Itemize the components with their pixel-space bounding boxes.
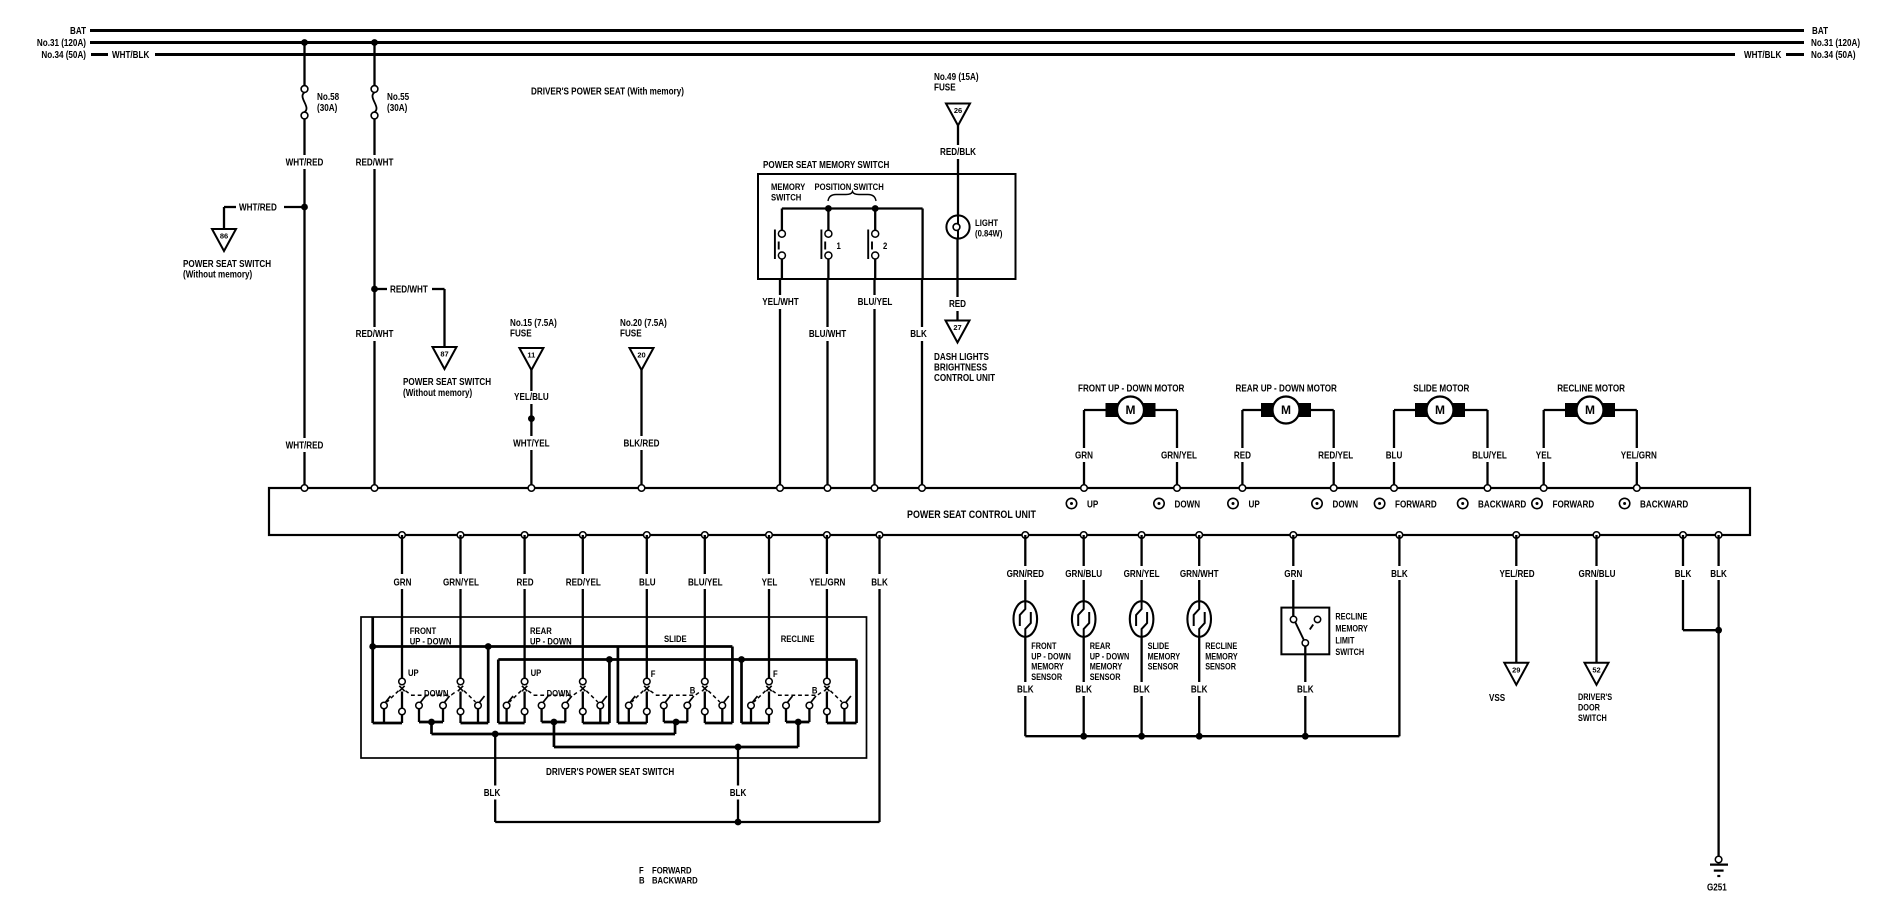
terminal (top edge) — [824, 485, 831, 492]
throw contact — [597, 702, 604, 709]
svg-text:RECLINE MOTOR: RECLINE MOTOR — [1557, 384, 1625, 395]
terminal (top edge) — [777, 485, 784, 492]
terminal (bottom edge) — [1022, 532, 1029, 539]
wire YEL (left motor lead) — [1544, 409, 1565, 411]
wire RED/YEL to seat switch — [582, 535, 584, 574]
terminal (top edge) — [1634, 485, 1641, 492]
wire BLK from limit switch — [1304, 646, 1306, 682]
terminal (bottom edge) — [1138, 532, 1145, 539]
junction to second power seat switch branch — [371, 286, 378, 293]
connector 27 dash lights — [946, 321, 970, 343]
svg-text:UP: UP — [531, 668, 542, 679]
wire BLK from sensor — [1083, 637, 1085, 682]
svg-text:POWER SEAT MEMORY SWITCH: POWER SEAT MEMORY SWITCH — [763, 160, 889, 171]
throw contact — [538, 702, 545, 709]
wire BLU/YEL to seat switch — [704, 535, 706, 574]
throw contact — [841, 702, 848, 709]
svg-text:DRIVER'S POWER SEAT SWITCH: DRIVER'S POWER SEAT SWITCH — [546, 767, 674, 778]
svg-text:YEL/WHT: YEL/WHT — [762, 297, 799, 308]
svg-text:BLU/YEL: BLU/YEL — [858, 297, 893, 308]
svg-text:87: 87 — [440, 350, 448, 359]
terminal (bottom edge) — [1593, 532, 1600, 539]
svg-text:BLK: BLK — [1297, 685, 1314, 696]
terminal (top edge) — [301, 485, 308, 492]
svg-text:BLK: BLK — [1675, 569, 1692, 580]
svg-text:VSS: VSS — [1489, 693, 1505, 704]
svg-text:YEL/GRN: YEL/GRN — [809, 578, 845, 589]
svg-text:29: 29 — [1512, 665, 1520, 674]
svg-text:11: 11 — [527, 351, 535, 360]
svg-text:DOWN: DOWN — [547, 689, 572, 700]
wire link FRONT to SLIDE common — [430, 722, 433, 734]
svg-text:UP - DOWN: UP - DOWN — [530, 637, 572, 648]
wire RED/WHT below fuse 55 — [373, 119, 375, 155]
switch: recline memory limit switch — [1290, 616, 1296, 622]
svg-text:YEL/BLU: YEL/BLU — [514, 392, 549, 403]
throw contact — [503, 702, 510, 709]
wire from rail to fuse No.55 — [373, 43, 375, 86]
svg-text:BAT: BAT — [1812, 26, 1828, 37]
wire left wall FRONT UP-DOWN — [371, 617, 374, 723]
svg-text:M: M — [1585, 403, 1595, 417]
svg-text:DOOR: DOOR — [1578, 703, 1600, 713]
terminal (top edge) — [638, 485, 645, 492]
svg-text:REAR: REAR — [530, 626, 552, 637]
terminal (bottom edge) — [766, 532, 773, 539]
svg-text:FORWARD: FORWARD — [1395, 500, 1437, 511]
svg-text:GRN/RED: GRN/RED — [1007, 569, 1044, 580]
switch contact column x=524.6 — [521, 678, 528, 685]
terminal (top edge) — [871, 485, 878, 492]
switch contact column x=402 — [399, 678, 406, 685]
svg-text:BLK: BLK — [1191, 685, 1208, 696]
svg-text:BACKWARD: BACKWARD — [652, 876, 698, 887]
wire RED/BLK to memory switch light — [957, 126, 959, 146]
terminal (top edge) — [528, 485, 535, 492]
svg-text:SLIDE: SLIDE — [1148, 641, 1170, 651]
switch contact column x=646.8 — [644, 678, 651, 685]
svg-text:WHT/RED: WHT/RED — [286, 158, 324, 169]
terminal (top edge) — [1081, 485, 1088, 492]
switch contact column x=460.5 — [457, 678, 464, 685]
svg-text:UP: UP — [1249, 500, 1261, 511]
terminal (top edge) — [1540, 485, 1547, 492]
wire GRN/YEL to sensor — [1140, 535, 1142, 566]
wire YEL/RED to VSS — [1515, 535, 1517, 566]
wire sensor ground bus — [1025, 735, 1399, 737]
connector 26 fuse No.49 triangle — [946, 104, 970, 126]
svg-text:WHT/RED: WHT/RED — [286, 441, 324, 452]
wire BLK sensor ground — [1398, 535, 1400, 566]
terminal symbol DOWN — [1154, 498, 1164, 508]
terminal (bottom edge) — [580, 532, 587, 539]
svg-text:86: 86 — [220, 232, 228, 241]
wire right wall SLIDE — [731, 647, 734, 724]
wire GRN/BLU to sensor — [1083, 535, 1085, 566]
throw contact — [783, 702, 790, 709]
svg-text:No.31 (120A): No.31 (120A) — [37, 38, 86, 49]
svg-text:27: 27 — [953, 323, 961, 332]
svg-text:MEMORY: MEMORY — [1090, 662, 1123, 672]
wire right wall RECLINE — [855, 660, 858, 724]
svg-text:UP - DOWN: UP - DOWN — [1090, 651, 1130, 661]
svg-text:DRIVER'S: DRIVER'S — [1578, 692, 1612, 702]
svg-text:BACKWARD: BACKWARD — [1640, 500, 1688, 511]
svg-text:RED/YEL: RED/YEL — [1318, 451, 1353, 462]
switch: memory switch — [781, 209, 783, 231]
wire bus 1 (front/slide feed) — [373, 645, 733, 648]
wire: No.31 (120A) rail — [90, 41, 1804, 44]
svg-text:B: B — [690, 686, 696, 697]
sensor: SLIDE MEMORY SENSOR — [1130, 601, 1154, 637]
junction BLK merge — [1715, 627, 1722, 634]
svg-text:GRN/WHT: GRN/WHT — [1180, 569, 1219, 580]
svg-text:GRN/YEL: GRN/YEL — [1161, 451, 1197, 462]
wire left wall RECLINE — [740, 660, 743, 724]
terminal (bottom edge) — [1290, 532, 1297, 539]
terminal (bottom edge) — [1513, 532, 1520, 539]
wire middle throw tie — [664, 721, 688, 724]
junction BLK2 on return bus — [735, 819, 742, 826]
wire GRN to limit switch — [1292, 535, 1294, 566]
svg-text:BLK: BLK — [871, 578, 888, 589]
svg-text:FRONT: FRONT — [410, 626, 437, 637]
wire BLU/WHT — [826, 279, 828, 327]
wire bus 2 (rear/recline feed) — [498, 658, 856, 661]
wire WHT/RED below fuse 58 — [303, 119, 305, 155]
svg-text:GRN: GRN — [394, 578, 412, 589]
svg-text:POWER SEAT CONTROL UNIT: POWER SEAT CONTROL UNIT — [907, 509, 1036, 521]
terminal symbol UP — [1066, 498, 1076, 508]
throw contact — [562, 702, 569, 709]
svg-text:FORWARD: FORWARD — [1553, 500, 1595, 511]
svg-text:No.20 (7.5A): No.20 (7.5A) — [620, 318, 667, 329]
svg-text:YEL/GRN: YEL/GRN — [1621, 451, 1657, 462]
svg-text:(Without memory): (Without memory) — [403, 388, 472, 399]
svg-text:MEMORY: MEMORY — [1031, 662, 1064, 672]
svg-text:RECLINE: RECLINE — [1205, 641, 1237, 651]
svg-text:RECLINE: RECLINE — [781, 634, 815, 645]
svg-text:MEMORY: MEMORY — [1148, 651, 1181, 661]
box: recline memory limit switch — [1281, 608, 1329, 655]
throw contact — [626, 702, 633, 709]
svg-text:MEMORY: MEMORY — [1205, 651, 1238, 661]
svg-text:RED/WHT: RED/WHT — [390, 285, 428, 296]
svg-text:(30A): (30A) — [387, 103, 407, 114]
svg-text:BLU: BLU — [1386, 451, 1403, 462]
svg-text:No.31 (120A): No.31 (120A) — [1811, 38, 1860, 49]
terminal (bottom edge) — [702, 532, 709, 539]
svg-text:REAR UP - DOWN MOTOR: REAR UP - DOWN MOTOR — [1236, 384, 1338, 395]
svg-text:(Without memory): (Without memory) — [183, 270, 252, 281]
svg-text:M: M — [1126, 403, 1136, 417]
svg-text:52: 52 — [1592, 665, 1600, 674]
svg-text:FUSE: FUSE — [620, 329, 642, 340]
svg-text:MEMORY: MEMORY — [771, 182, 806, 193]
svg-text:No.15 (7.5A): No.15 (7.5A) — [510, 318, 557, 329]
svg-text:DOWN: DOWN — [1175, 500, 1201, 511]
throw contact — [661, 702, 668, 709]
svg-text:FRONT UP - DOWN MOTOR: FRONT UP - DOWN MOTOR — [1078, 384, 1185, 395]
wire BLK/RED — [640, 370, 642, 436]
wire YEL to seat switch — [768, 535, 770, 574]
svg-text:BLK: BLK — [1710, 569, 1727, 580]
svg-text:(0.84W): (0.84W) — [975, 229, 1002, 240]
wire YEL/GRN (right motor lead) — [1615, 409, 1637, 411]
switch: position switch 2 — [874, 209, 876, 231]
svg-text:M: M — [1435, 403, 1445, 417]
svg-text:BAT: BAT — [70, 26, 86, 37]
svg-text:WHT/YEL: WHT/YEL — [513, 439, 550, 450]
svg-text:BLK: BLK — [1391, 569, 1408, 580]
terminal (bottom edge) — [1396, 532, 1403, 539]
wire GRN to seat switch — [401, 535, 403, 574]
svg-text:WHT/BLK: WHT/BLK — [1744, 50, 1782, 61]
wire BLK from sensor — [1024, 637, 1026, 682]
svg-text:BLU/WHT: BLU/WHT — [809, 329, 846, 340]
svg-text:BACKWARD: BACKWARD — [1478, 500, 1526, 511]
sensor: RECLINE MEMORY SENSOR — [1187, 601, 1211, 637]
ground G251 — [1715, 856, 1722, 863]
wire GRN/WHT to sensor — [1198, 535, 1200, 566]
terminal (top edge) — [1239, 485, 1246, 492]
wire RED/YEL (right motor lead) — [1311, 409, 1334, 411]
terminal (bottom edge) — [824, 532, 831, 539]
box: driver's power seat switch — [361, 617, 867, 758]
svg-text:B: B — [812, 686, 818, 697]
svg-text:26: 26 — [954, 106, 962, 115]
svg-text:BLK: BLK — [1075, 685, 1092, 696]
junction BLK tap 2 — [735, 744, 742, 751]
wire branch right RED/WHT — [375, 288, 388, 290]
svg-text:BLK: BLK — [484, 788, 501, 799]
svg-text:G251: G251 — [1707, 883, 1727, 894]
wire middle throw tie — [786, 721, 809, 724]
throw contact — [748, 702, 755, 709]
svg-text:SWITCH: SWITCH — [1578, 713, 1607, 723]
svg-text:F: F — [773, 669, 778, 680]
terminal (bottom edge) — [1196, 532, 1203, 539]
svg-text:POWER SEAT SWITCH: POWER SEAT SWITCH — [403, 377, 491, 388]
wire: memory switch feed bus — [782, 207, 923, 209]
terminal symbol FORWARD — [1532, 498, 1542, 508]
svg-text:LIMIT: LIMIT — [1335, 635, 1354, 645]
terminal (bottom edge) — [1715, 532, 1722, 539]
switch contact column x=826.9 — [824, 678, 831, 685]
wire bottom bus left — [618, 722, 647, 725]
box: POWER SEAT CONTROL UNIT — [269, 488, 1750, 535]
svg-text:DOWN: DOWN — [424, 689, 449, 700]
sensor: REAR UP - DOWN MEMORY SENSOR — [1072, 601, 1096, 637]
wire: No.34 (50A) WHT/BLK rail — [91, 53, 108, 56]
mechanical linkage (dashed) — [387, 691, 399, 702]
wire bottom bus left — [373, 722, 402, 725]
svg-text:SWITCH: SWITCH — [1335, 647, 1364, 657]
svg-text:GRN/YEL: GRN/YEL — [443, 578, 479, 589]
svg-text:RED/WHT: RED/WHT — [356, 329, 394, 340]
svg-text:SENSOR: SENSOR — [1148, 662, 1179, 672]
terminal (top edge) — [1391, 485, 1398, 492]
wire BLU to seat switch — [646, 535, 648, 574]
wire RED (left motor lead) — [1242, 409, 1261, 411]
wire middle throw tie — [542, 721, 566, 724]
svg-text:BLK/RED: BLK/RED — [624, 439, 660, 450]
wire GRN/RED to sensor — [1024, 535, 1026, 566]
svg-text:DRIVER'S POWER SEAT (With memo: DRIVER'S POWER SEAT (With memory) — [531, 87, 684, 98]
switch contact column x=704.8 — [702, 678, 709, 685]
terminal (bottom edge) — [876, 532, 883, 539]
wire BLU (left motor lead) — [1394, 409, 1415, 411]
terminal (bottom edge) — [644, 532, 651, 539]
connector 52 driver's door switch — [1585, 663, 1609, 685]
wire RED to seat switch — [523, 535, 525, 574]
svg-text:No.34 (50A): No.34 (50A) — [41, 50, 86, 61]
svg-text:SENSOR: SENSOR — [1205, 662, 1236, 672]
svg-text:BRIGHTNESS: BRIGHTNESS — [934, 363, 987, 374]
svg-text:POSITION SWITCH: POSITION SWITCH — [815, 182, 884, 193]
terminal (bottom edge) — [1080, 532, 1087, 539]
wire GRN (left motor lead) — [1084, 409, 1106, 411]
wire bottom bus right — [705, 722, 733, 725]
svg-text:WHT/BLK: WHT/BLK — [112, 50, 150, 61]
svg-text:20: 20 — [637, 351, 645, 360]
terminal (top edge) — [1174, 485, 1181, 492]
terminal symbol FORWARD — [1374, 498, 1384, 508]
wire right wall FRONT UP-DOWN — [487, 647, 490, 724]
box: power seat memory switch — [758, 174, 1016, 279]
wire left wall SLIDE — [617, 647, 620, 724]
terminal (bottom edge) — [399, 532, 406, 539]
junction on sensor ground bus — [1138, 733, 1145, 740]
wire BLK from sensor — [1140, 637, 1142, 682]
svg-text:No.55: No.55 — [387, 92, 409, 103]
svg-text:(30A): (30A) — [317, 103, 337, 114]
wire middle throw tie — [419, 721, 443, 724]
lamp LIGHT (0.84W) — [957, 216, 959, 228]
junction on sensor ground bus — [1080, 733, 1087, 740]
switch contact column x=582.8 — [580, 678, 587, 685]
terminal (top edge) — [371, 485, 378, 492]
wire BLK jog — [1682, 535, 1684, 566]
svg-text:B: B — [639, 876, 645, 887]
junction position switch 2 feed — [872, 205, 879, 212]
sensor: FRONT UP - DOWN MEMORY SENSOR — [1014, 601, 1038, 637]
terminal symbol BACKWARD — [1458, 498, 1468, 508]
svg-text:BLK: BLK — [910, 329, 927, 340]
svg-text:RED/WHT: RED/WHT — [356, 158, 394, 169]
mechanical linkage (dashed) — [632, 691, 644, 702]
throw contact — [381, 702, 388, 709]
svg-text:2: 2 — [883, 241, 887, 252]
svg-text:GRN: GRN — [1284, 569, 1302, 580]
throw contact — [684, 702, 691, 709]
junction BLK tap 1 — [492, 731, 499, 738]
connector fuse No.20 triangle — [630, 348, 654, 370]
junction position switch 1 feed — [825, 205, 832, 212]
mechanical linkage (dashed) — [510, 691, 521, 702]
switch: position switch 1 — [827, 209, 829, 231]
svg-text:GRN: GRN — [1075, 451, 1093, 462]
svg-text:FUSE: FUSE — [934, 83, 956, 94]
svg-text:DOWN: DOWN — [1333, 500, 1359, 511]
svg-text:BLK: BLK — [1017, 685, 1034, 696]
brace under position switch — [828, 192, 876, 202]
svg-text:WHT/RED: WHT/RED — [239, 203, 277, 214]
wire BLK to ground — [1717, 535, 1719, 566]
terminal (bottom edge) — [1680, 532, 1687, 539]
svg-text:1: 1 — [837, 241, 842, 252]
svg-text:No.34 (50A): No.34 (50A) — [1811, 50, 1856, 61]
wire RED from light — [956, 239, 958, 297]
wire YEL/BLU / WHT/YEL — [530, 370, 532, 391]
connector 29 VSS — [1504, 663, 1528, 685]
svg-text:BLK: BLK — [1133, 685, 1150, 696]
junction on No.31 rail for fuse No.55 — [371, 39, 378, 46]
junction on sensor ground bus — [1302, 733, 1309, 740]
wire GRN/YEL to seat switch — [459, 535, 461, 574]
wire branch left WHT/RED — [284, 206, 305, 208]
terminal (bottom edge) — [457, 532, 464, 539]
svg-text:No.58: No.58 — [317, 92, 339, 103]
svg-text:SLIDE: SLIDE — [664, 634, 687, 645]
terminal (top edge) — [919, 485, 926, 492]
svg-text:LIGHT: LIGHT — [975, 218, 998, 229]
wire right wall REAR UP-DOWN — [608, 660, 611, 724]
svg-text:F: F — [651, 669, 656, 680]
svg-text:UP - DOWN: UP - DOWN — [1031, 651, 1071, 661]
connector 87 (power seat switch without memory) — [433, 347, 457, 369]
junction to power seat switch (without memory) branch — [301, 204, 308, 211]
wire from rail to fuse No.58 — [303, 43, 305, 86]
svg-text:YEL: YEL — [762, 578, 778, 589]
wire BLU/YEL — [873, 279, 875, 295]
svg-text:DASH LIGHTS: DASH LIGHTS — [934, 352, 989, 363]
svg-text:BLU/YEL: BLU/YEL — [688, 578, 723, 589]
svg-text:BLU: BLU — [639, 578, 656, 589]
wire GRN/YEL (right motor lead) — [1156, 409, 1178, 411]
svg-text:SENSOR: SENSOR — [1090, 672, 1121, 682]
wire BLK return bus — [495, 821, 879, 823]
splice joint — [528, 415, 535, 422]
switch contact column x=769 — [766, 678, 773, 685]
svg-text:CONTROL UNIT: CONTROL UNIT — [934, 373, 995, 384]
fuse No.58 (30A) — [301, 86, 308, 93]
svg-text:RED: RED — [949, 299, 966, 310]
junction on sensor ground bus — [1196, 733, 1203, 740]
svg-text:No.49 (15A): No.49 (15A) — [934, 72, 979, 83]
terminal (top edge) — [1330, 485, 1337, 492]
wire YEL/GRN to seat switch — [826, 535, 828, 574]
svg-text:YEL/RED: YEL/RED — [1499, 569, 1534, 580]
terminal (bottom edge) — [521, 532, 528, 539]
wire BLK bus inside memory switch — [921, 209, 923, 280]
svg-text:FUSE: FUSE — [510, 329, 532, 340]
svg-text:GRN/BLU: GRN/BLU — [1065, 569, 1102, 580]
svg-text:GRN/BLU: GRN/BLU — [1579, 569, 1616, 580]
wire BLK (seat switch ground) — [878, 535, 880, 574]
wire BLK from sensor — [1198, 637, 1200, 682]
connector 86 (power seat switch without memory) — [212, 229, 236, 251]
wire BLK 2 down from seat switch — [737, 747, 739, 786]
svg-text:GRN/YEL: GRN/YEL — [1124, 569, 1160, 580]
wire link REAR to RECLINE common — [553, 722, 556, 747]
terminal symbol BACKWARD — [1619, 498, 1629, 508]
wire bottom bus left — [742, 722, 770, 725]
wire BLU/YEL (right motor lead) — [1465, 409, 1488, 411]
throw contact — [475, 702, 482, 709]
junction on No.31 rail for fuse No.58 — [301, 39, 308, 46]
svg-text:UP: UP — [1087, 500, 1099, 511]
